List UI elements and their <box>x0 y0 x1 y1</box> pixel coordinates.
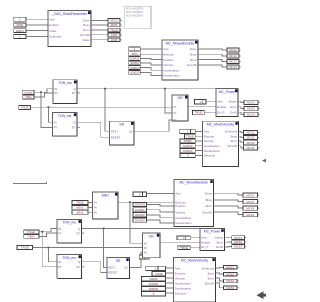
svg-text:Acceleration: Acceleration <box>175 216 191 220</box>
svg-text:Q1: Q1 <box>129 130 133 134</box>
output operand box MA1 MC12 <box>227 54 241 58</box>
svg-text:TRUE: TRUE <box>194 111 202 115</box>
svg-text:MC14: MC14 <box>229 65 237 69</box>
separator line segment <box>13 182 47 184</box>
svg-text:SR: SR <box>119 123 124 127</box>
wire MC_Power1 output 3 <box>238 112 244 114</box>
svg-text:_DAC_ReadParameter: _DAC_ReadParameter <box>51 12 88 16</box>
svg-text:ErrID: ErrID <box>230 110 237 114</box>
wire MV2 input 3 <box>165 277 173 279</box>
svg-text:TRUE: TRUE <box>76 201 84 205</box>
output operand box MV2 MC64 <box>224 286 239 290</box>
output operand box MC_Power2 MC51 <box>232 236 247 240</box>
svg-text:MC32: MC32 <box>247 136 255 140</box>
svg-text:Status: Status <box>228 100 237 104</box>
wire TRUE to MC_Power2 bReg <box>190 246 200 248</box>
svg-text:IN: IN <box>94 211 97 215</box>
wire OR1 out to MC_Power Enable <box>188 106 216 108</box>
wire box4 to _DAC pin4 <box>26 35 48 37</box>
svg-text:Done: Done <box>83 19 90 23</box>
svg-text:MC63: MC63 <box>226 279 234 283</box>
TON3 ET stub <box>82 232 85 234</box>
svg-text:TON_ms: TON_ms <box>58 81 72 85</box>
svg-text:MC31: MC31 <box>247 131 255 135</box>
wire MA1 output 4 <box>198 65 227 67</box>
svg-text:Direction: Direction <box>175 291 187 295</box>
svg-text:TRUE: TRUE <box>21 246 29 250</box>
svg-text:T#2s: T#2s <box>25 95 32 99</box>
function block MC_MoveAbsolute (axis 2) <box>174 179 213 226</box>
output operand box _DAC MC02 <box>108 19 122 23</box>
svg-text:ErrorID: ErrorID <box>187 63 196 67</box>
wire TRUE to MC_Power bReg <box>204 111 216 113</box>
wire MV2 output 1 <box>215 266 223 269</box>
wire SR1 Q1 to OR IN3 <box>134 120 172 131</box>
TON1 ET stub <box>77 92 80 94</box>
svg-text:100000: 100000 <box>183 149 193 153</box>
input operand box MC_MoveVelocity2 50000 <box>141 277 165 281</box>
svg-text:Acceleration: Acceleration <box>204 144 220 148</box>
wire MV1 output 3 <box>238 141 243 143</box>
svg-text:PT: PT <box>54 126 58 130</box>
svg-text:InVelocity: InVelocity <box>202 266 215 270</box>
input operand box MC_MoveAbsolute1 30000 <box>129 61 141 65</box>
svg-text:OR: OR <box>178 96 184 100</box>
operand box 1 (input to _DAC_ReadParameter pin Axis) <box>14 17 26 21</box>
wire MA1 output 3 <box>198 60 227 62</box>
wire MC_Power2 output 2 <box>224 241 231 243</box>
svg-text:150424: 150424 <box>130 57 140 61</box>
input operand box MC_MoveVelocity1 1 <box>180 129 195 133</box>
wire boxpair-b to TON1 PT <box>34 93 53 97</box>
svg-text:bEn1: bEn1 <box>77 206 84 210</box>
svg-text:300000: 300000 <box>135 213 145 217</box>
wire MV1 output 2 <box>238 136 243 137</box>
function block TON3 (TON_ms) <box>57 219 82 243</box>
function block MC_Power (axis 2) <box>200 228 224 250</box>
svg-text:IN: IN <box>54 121 57 125</box>
function block OR2 <box>143 233 160 258</box>
operand box pair a (TON3) <box>24 230 39 234</box>
wire MA2 input 1 <box>147 205 174 207</box>
svg-text:Busy: Busy <box>231 134 238 138</box>
svg-text:IN: IN <box>144 246 147 250</box>
wire AND branch to OR2 IN1 <box>130 202 143 243</box>
wire MA2 input 4 <box>147 220 174 223</box>
svg-text:Error: Error <box>231 139 237 143</box>
function block SR1 <box>110 121 135 145</box>
wire ANDin 2 <box>88 206 93 208</box>
wire MV1 input 4 <box>195 145 202 147</box>
svg-text:MC61: MC61 <box>226 266 234 270</box>
svg-text:MC53: MC53 <box>234 245 242 249</box>
input operand box MC_MoveVelocity2 2 <box>146 266 166 270</box>
function block AND1 <box>93 192 119 219</box>
operand box TRUE (MC_Power1) <box>192 110 204 114</box>
wire MA2 input 3 <box>147 215 174 218</box>
svg-text:TRUE: TRUE <box>155 272 163 276</box>
wire MA1 output 2 <box>198 54 227 56</box>
junction TON1 Q to OR IN2 <box>164 88 166 90</box>
output operand box MC_Power1 MC21 <box>244 100 260 104</box>
svg-text:4000: 4000 <box>131 52 138 56</box>
svg-text:Error: Error <box>83 28 89 32</box>
svg-text:IN: IN <box>144 251 147 255</box>
svg-text:Acceleration: Acceleration <box>163 68 179 72</box>
svg-text:Velocity: Velocity <box>204 139 215 143</box>
svg-text:SubIndex: SubIndex <box>49 35 62 39</box>
svg-text:SR: SR <box>116 259 121 263</box>
svg-text:MC43: MC43 <box>246 206 254 210</box>
svg-text:30000: 30000 <box>131 61 139 65</box>
small marker arrow right edge <box>262 159 266 163</box>
wire ANDin 3 <box>88 211 93 213</box>
wire AND out to MA2 Execute <box>118 201 174 203</box>
output operand box _DAC 1000 <box>108 33 122 37</box>
wire MA2 output 4 <box>213 212 243 215</box>
wire MA2 output 3 <box>213 206 243 208</box>
wire MA2 output 1 <box>213 193 243 195</box>
svg-text:MC_MoveVelocity: MC_MoveVelocity <box>181 259 208 263</box>
svg-text:PT: PT <box>54 91 58 95</box>
output operand box MV1 MC33 <box>244 141 260 145</box>
svg-text:2048: 2048 <box>111 38 118 42</box>
wire _DAC output y34.8 <box>91 34 108 36</box>
output operand box MA1 MC14 <box>227 65 241 69</box>
output operand box MA1 MC11 <box>227 48 241 52</box>
svg-text:Axis: Axis <box>49 17 55 21</box>
output operand box MA2 MC42 <box>243 200 259 204</box>
wire MA1 input 3 <box>140 58 162 59</box>
wire TON1 Q to MC_Power area <box>77 88 216 90</box>
wire branch to TON4 PT <box>42 232 57 267</box>
wire _DAC output y20.4 <box>91 19 108 21</box>
input operand box AND TRUE <box>72 201 88 205</box>
svg-text:En_P: En_P <box>217 110 224 114</box>
wire TRUE to OR IN1 <box>31 106 173 108</box>
svg-text:ET: ET <box>72 91 76 95</box>
junction TON3 pair branch <box>41 231 43 233</box>
wire boxpair-a to TON1 IN <box>34 89 53 93</box>
svg-text:MC21: MC21 <box>247 101 255 105</box>
svg-text:MC44: MC44 <box>246 213 254 217</box>
input operand box MC_MoveVelocity1 100000 <box>180 149 195 153</box>
wire MA1 input 6 <box>140 72 162 75</box>
svg-text:9006: 9006 <box>111 23 118 27</box>
operand box 1b <box>14 35 26 39</box>
input operand box AND bEn2 <box>72 210 88 214</box>
output operand box _DAC 2048 <box>108 38 122 42</box>
svg-text:Q1: Q1 <box>124 266 128 270</box>
output operand box MV2 MC62 <box>224 272 239 276</box>
wire MA2 input 2 <box>147 210 174 212</box>
svg-text:ErrorID: ErrorID <box>203 210 212 214</box>
svg-text:Error: Error <box>190 58 196 62</box>
svg-text:TRUE: TRUE <box>186 134 194 138</box>
svg-text:MC42: MC42 <box>246 200 254 204</box>
svg-text:ErrorID: ErrorID <box>228 144 237 148</box>
svg-text:MC34: MC34 <box>247 146 255 150</box>
function block _DAC_ReadParameter <box>48 11 91 47</box>
svg-text:TON_ms: TON_ms <box>62 256 76 260</box>
wire boxpair-b to TON3 PT <box>39 233 57 236</box>
output operand box MV2 MC63 <box>224 279 239 283</box>
function block TON4 (TON_ms) <box>57 255 82 279</box>
svg-text:Busy: Busy <box>206 198 213 202</box>
svg-text:Velocity: Velocity <box>175 210 186 214</box>
function block MC_MoveAbsolute (axis 1) <box>162 40 198 80</box>
wire boxpair-a to TON3 IN <box>39 229 57 232</box>
svg-text:bEn2: bEn2 <box>77 210 84 214</box>
svg-text:Error: Error <box>206 204 212 208</box>
svg-text:Position: Position <box>163 58 174 62</box>
svg-text:TRUE: TRUE <box>180 246 188 250</box>
svg-text:RESET: RESET <box>111 136 121 140</box>
wire MA1 input 4 <box>140 63 162 65</box>
wire MC_Power2 output 3 <box>224 245 231 248</box>
svg-text:TON_ms: TON_ms <box>62 221 76 225</box>
svg-text:TON_ms: TON_ms <box>58 114 72 118</box>
svg-text:Deceleration: Deceleration <box>204 149 221 153</box>
operand box pair b (TON3) <box>24 234 39 238</box>
input operand box AND bEn1 <box>72 205 88 209</box>
svg-text:AND: AND <box>102 193 110 197</box>
svg-text:ET: ET <box>76 231 80 235</box>
svg-text:MC64: MC64 <box>226 286 234 290</box>
wire MV2 output 2 <box>215 273 223 274</box>
svg-text:Execute: Execute <box>163 53 174 57</box>
function block MC_MoveVelocity (axis 2) <box>174 257 216 302</box>
operand box 9000 <box>14 23 26 27</box>
svg-text:Error: Error <box>230 105 236 109</box>
svg-text:ErrorID: ErrorID <box>205 281 214 285</box>
function block MC_Power (axis 1) <box>216 89 238 117</box>
svg-text:Velocity: Velocity <box>163 63 174 67</box>
svg-text:Execute: Execute <box>175 271 186 275</box>
svg-text:Axis: Axis <box>175 192 181 196</box>
operand box 16#2C <box>14 29 26 33</box>
svg-text:Status: Status <box>215 236 224 240</box>
wire junction down to SR S1 <box>105 89 110 132</box>
wire axisref MA2 <box>147 193 174 195</box>
svg-text:MC52: MC52 <box>234 240 242 244</box>
operand box axis ref (MA2) <box>133 192 147 196</box>
svg-text:Axis: Axis <box>175 266 181 270</box>
svg-text:InVelocity: InVelocity <box>225 130 238 134</box>
svg-text:1000: 1000 <box>111 33 118 37</box>
svg-text:Axis: Axis <box>163 47 169 51</box>
output operand box MV1 MC34 <box>244 146 260 150</box>
svg-text:Busy: Busy <box>208 271 215 275</box>
wire _DAC output y25.0 <box>91 24 108 26</box>
wire OR2 out to MC_Power2 Enable <box>160 242 200 244</box>
svg-text:Deceleration: Deceleration <box>175 221 192 225</box>
wire branch to TON2 PT <box>41 92 52 127</box>
svg-text:SET1: SET1 <box>111 130 119 134</box>
svg-text:ErrID: ErrID <box>216 245 223 249</box>
svg-text:034764: 034764 <box>135 203 145 207</box>
svg-text:PT: PT <box>58 231 62 235</box>
wire MV1 input 6 <box>195 154 202 156</box>
wire MV2 output 4 <box>215 283 223 288</box>
svg-text:MC_Power: MC_Power <box>204 230 222 234</box>
wire junction down to OR IN2 <box>165 89 172 113</box>
svg-text:bStart: bStart <box>27 230 35 234</box>
junction TRUE2 branch <box>48 247 50 249</box>
input operand box MC_MoveAbsolute1 100000 <box>129 66 141 70</box>
junction AND out <box>129 201 131 203</box>
svg-text:RESET: RESET <box>108 271 118 275</box>
svg-text:IN: IN <box>174 118 177 122</box>
input operand box MC_MoveVelocity1 100000 <box>180 144 195 148</box>
output operand box MC_Power2 MC52 <box>232 240 247 244</box>
svg-text:Error: Error <box>208 276 214 280</box>
operand box small a <box>139 255 149 259</box>
input operand box MA2 034764 <box>133 202 147 206</box>
svg-text:100000: 100000 <box>149 287 159 291</box>
svg-text:ErrorID: ErrorID <box>80 33 89 37</box>
input operand box MC_MoveAbsolute1 1 <box>129 47 141 51</box>
svg-text:SET1: SET1 <box>108 266 116 270</box>
svg-text:Direction: Direction <box>204 154 216 158</box>
svg-text:IN: IN <box>144 241 147 245</box>
svg-text:MC23: MC23 <box>247 113 255 117</box>
svg-text:MC3=MC/ETN:/: MC3=MC/ETN:/ <box>126 14 144 17</box>
wire TRUE branch to TON2 IN <box>49 107 53 122</box>
wire MV1 input 1 <box>195 130 202 132</box>
svg-text:MC33: MC33 <box>247 141 255 145</box>
operand box axis ref (MC_Power1) <box>195 100 207 104</box>
wire ANDin 1 <box>88 201 93 203</box>
svg-text:PT: PT <box>58 265 62 269</box>
svg-text:Done: Done <box>205 192 212 196</box>
input operand box MC_MoveAbsolute1 4000 <box>129 52 141 56</box>
wire MV2 output 3 <box>215 278 223 281</box>
input operand box MC_MoveVelocity1 3 <box>180 153 195 157</box>
operand box TRUE (top) <box>19 105 31 109</box>
svg-text:TRUE: TRUE <box>110 28 118 32</box>
input operand box MA2 300000 <box>133 218 147 222</box>
svg-text:Done: Done <box>190 47 197 51</box>
input operand box MC_MoveVelocity2 TRUE <box>152 272 165 276</box>
svg-text:IN: IN <box>58 227 61 231</box>
svg-text:Busy: Busy <box>83 23 90 27</box>
input operand box MC_MoveAbsolute1 150424 <box>129 56 141 60</box>
output operand box MV2 MC61 <box>224 266 239 270</box>
svg-text:IN: IN <box>174 111 177 115</box>
wire MC_Power2 output 1 <box>224 236 231 238</box>
svg-text:MC41: MC41 <box>246 193 254 197</box>
wire MV2 input 1 <box>165 267 173 269</box>
output operand box MA2 MC41 <box>243 193 259 197</box>
junction boxpair-a branch <box>40 91 42 93</box>
svg-text:Enable: Enable <box>217 105 226 109</box>
svg-text:16#2C: 16#2C <box>16 29 25 33</box>
function block OR1 <box>172 95 188 122</box>
input operand box MC_MoveVelocity1 50000 <box>180 139 195 143</box>
svg-text:TRUE: TRUE <box>21 106 29 110</box>
wire _DAC output y39.7 <box>91 39 108 41</box>
svg-text:En_P: En_P <box>201 245 208 249</box>
svg-text:MC_MoveAbsolute: MC_MoveAbsolute <box>179 181 208 185</box>
svg-text:MC_Power: MC_Power <box>219 90 237 94</box>
wire MV1 input 2 <box>195 135 202 137</box>
wire MV2 input 4 <box>165 282 173 284</box>
svg-text:Position: Position <box>175 204 186 208</box>
input operand box MC_MoveVelocity2 100000 <box>141 282 165 286</box>
TON4 ET stub <box>82 266 85 268</box>
svg-text:ET: ET <box>76 265 80 269</box>
svg-text:MC_MoveAbsolute: MC_MoveAbsolute <box>166 41 195 45</box>
svg-text:Enable: Enable <box>49 23 58 27</box>
svg-text:T#2s: T#2s <box>28 235 35 239</box>
svg-text:MC11: MC11 <box>229 48 237 52</box>
wire MA1 input 5 <box>140 68 162 71</box>
input operand box MA2 100000 <box>133 208 147 212</box>
svg-text:300000: 300000 <box>135 218 145 222</box>
wire MA1 output 1 <box>198 49 227 50</box>
svg-text:MC02: MC02 <box>110 19 118 23</box>
svg-text:100000: 100000 <box>130 71 140 75</box>
wire MV1 output 4 <box>238 146 243 148</box>
svg-text:Index: Index <box>49 29 57 33</box>
wire MA2 output 2 <box>213 200 243 202</box>
wire axisref to MC_Power Axis <box>206 100 216 102</box>
wire MA1 input 2 <box>140 53 162 55</box>
output operand box MA2 MC44 <box>243 213 259 217</box>
wire MV1 input 3 <box>195 140 202 142</box>
wire SR2 Q1 to OR2 IN3 <box>129 252 142 267</box>
wire box1 to _DAC pin1 <box>26 18 48 20</box>
wire axisref to MC_Power2 <box>190 236 200 238</box>
svg-text:Error: Error <box>217 240 223 244</box>
output operand box _DAC TRUE <box>108 28 122 32</box>
output operand box MA2 MC43 <box>243 206 259 210</box>
input operand box MC_MoveAbsolute1 100000 <box>129 70 141 74</box>
wire MV1 output 1 <box>238 131 243 132</box>
wire _DAC output y29.9 <box>91 29 108 31</box>
svg-text:IN: IN <box>94 206 97 210</box>
svg-text:MC22: MC22 <box>247 107 255 111</box>
output operand box MC_Power1 MC23 <box>244 112 260 116</box>
svg-text:100000: 100000 <box>130 66 140 70</box>
wire MV2 input 6 <box>165 292 173 294</box>
comment text box <box>125 6 151 29</box>
svg-text:Axis: Axis <box>217 100 223 104</box>
wire TRUE2 branch to TON4 IN <box>49 248 57 262</box>
TON2 ET stub <box>77 127 80 129</box>
output operand box MC_Power1 MC22 <box>244 106 260 110</box>
wire MV2 input 2 <box>165 272 173 274</box>
svg-text:OR: OR <box>149 234 155 238</box>
output operand box MA1 MC13 <box>227 60 241 64</box>
svg-text:bStart: bStart <box>25 90 33 94</box>
operand box TRUE (bottom) <box>17 246 32 250</box>
mouse cursor marker <box>257 291 267 299</box>
wire box3 to _DAC pin3 <box>26 30 48 32</box>
junction TON3 Q to SR2 <box>103 228 105 230</box>
output operand box MV1 MC31 <box>244 130 260 134</box>
svg-text:MC_MoveVelocity: MC_MoveVelocity <box>207 123 234 127</box>
junction TON1 Q to SR <box>104 88 106 90</box>
svg-text:50000: 50000 <box>149 277 157 281</box>
function block SR2 <box>107 258 130 279</box>
wire TRUE2 to OR2 IN2 <box>33 247 143 249</box>
junction TRUE branch <box>48 106 50 108</box>
function block TON2 (TON_ms) <box>52 113 76 137</box>
wire junction down to SR2 S1 <box>104 229 107 268</box>
svg-text:Execute: Execute <box>204 134 215 138</box>
